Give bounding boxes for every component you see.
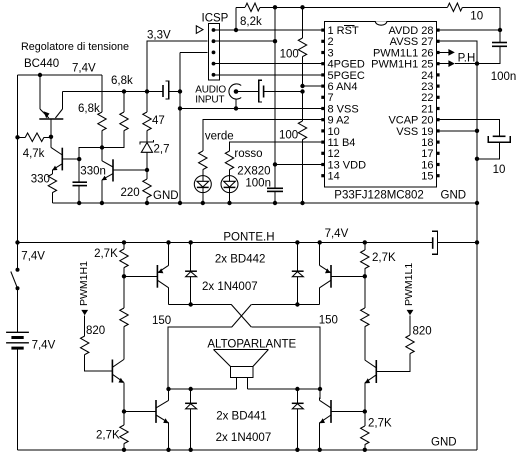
diode D1 1N4007: [185, 242, 197, 304]
label 330n: [80, 166, 106, 178]
label 2x BD441: [216, 411, 267, 423]
svg-text:47: 47: [152, 115, 165, 127]
transistor T1 BD442 left: [157, 242, 168, 304]
svg-text:BC440: BC440: [24, 58, 59, 70]
label 2X820: [237, 166, 270, 178]
svg-text:GND: GND: [431, 437, 457, 449]
label GND bottom: [431, 437, 457, 449]
chip pin pads right: [436, 29, 439, 178]
wire 3.3V horizontal y=91.5: [63, 91, 164, 93]
resistor 2,7K lower left: [120, 412, 128, 450]
node audio junction: [300, 89, 304, 93]
label 100n (VDD): [245, 178, 271, 190]
svg-text:16: 16: [421, 159, 433, 171]
capacitor C 3.3V rail (plate+bracket): [163, 81, 180, 99]
svg-text:2x 1N4007: 2x 1N4007: [216, 432, 272, 444]
node GND rail dots: [77, 201, 305, 205]
wire speaker right y=389: [248, 388, 320, 390]
node 47/zener junction: [145, 168, 149, 172]
node x=180 y=108.4: [178, 106, 182, 110]
label 10 top: [470, 10, 483, 22]
svg-text:6,8k: 6,8k: [78, 103, 100, 115]
svg-text:9 A2: 9 A2: [328, 115, 350, 127]
node D1 rail: [189, 240, 193, 244]
label 2x 1N4007 lower: [216, 432, 272, 444]
svg-text:2,7K: 2,7K: [94, 248, 118, 260]
wire pin11 B4 to rosso: [230, 142, 323, 151]
node Q1 base / 4,7k: [49, 135, 53, 139]
chip pin pads left: [321, 29, 324, 178]
svg-text:PWM1L1: PWM1L1: [403, 263, 415, 306]
ICSP pin dots: [212, 28, 216, 77]
resistor 330: [48, 174, 56, 203]
diode D3 1N4007: [185, 389, 197, 450]
node 7.4V rail left: [15, 240, 19, 244]
wire bottom GND rail: [18, 449, 478, 451]
svg-text:2x BD442: 2x BD442: [215, 254, 266, 266]
diode D4 1N4007: [292, 389, 304, 450]
node AN4 junction: [300, 84, 304, 88]
svg-text:verde: verde: [205, 131, 234, 143]
resistor 47: [143, 92, 151, 142]
label 10 VCAP: [493, 164, 506, 176]
svg-text:VSS 19: VSS 19: [396, 126, 433, 138]
svg-text:24: 24: [421, 70, 433, 82]
resistor verde 820: [199, 151, 207, 176]
label 2,7K upper right: [372, 252, 396, 264]
svg-text:14: 14: [328, 171, 340, 183]
capacitor rail decoupling (plate+bracket): [432, 231, 477, 254]
wire RCA to cap: [236, 91, 259, 93]
svg-text:rosso: rosso: [234, 148, 262, 160]
resistor 820 left: [81, 315, 113, 371]
svg-text:10: 10: [328, 126, 340, 138]
transistor T2 BD442 right: [320, 242, 365, 304]
label verde: [205, 131, 234, 143]
label 47: [152, 115, 165, 127]
transistor T5 driver left: [112, 360, 124, 412]
svg-text:7,4V: 7,4V: [325, 228, 349, 240]
svg-text:4PGED: 4PGED: [328, 59, 365, 71]
label ALTOPARLANTE: [207, 339, 296, 351]
node Q1 collector top: [38, 73, 42, 77]
label 2x 1N4007 upper: [202, 281, 258, 293]
op: chip body: [324, 21, 436, 187]
label 3,3V: [147, 30, 171, 42]
svg-text:330: 330: [31, 174, 50, 186]
label 150 left: [152, 315, 171, 327]
resistor 4,7k: [18, 133, 52, 142]
wire 3.3V up and to ICSP: [147, 41, 208, 91]
wire pin28 AVDD: [438, 29, 500, 31]
wire x=275 vertical VDD: [274, 7, 276, 188]
wire 7.4V top horizontal: [18, 74, 103, 76]
capacitor 10 VCAP (polarized): [477, 136, 510, 159]
wire ICSP5 to chip pin5 PGEC: [214, 74, 323, 76]
svg-text:8 VSS: 8 VSS: [328, 103, 359, 115]
svg-text:2X820: 2X820: [237, 166, 270, 178]
chip pin labels left: [328, 25, 367, 183]
node T3 collector: [166, 387, 170, 391]
svg-text:1 RST: 1 RST: [328, 25, 359, 37]
node out B: [295, 302, 299, 306]
LED rosso: [221, 176, 238, 203]
svg-text:100n: 100n: [245, 178, 271, 190]
svg-text:7,4V: 7,4V: [32, 340, 56, 352]
resistor 8,2k: [236, 3, 260, 30]
svg-text:18: 18: [421, 137, 433, 149]
switch S1: [11, 268, 20, 333]
svg-text:11 B4: 11 B4: [328, 137, 356, 149]
node rail x=124: [122, 240, 126, 244]
svg-text:2x 1N4007: 2x 1N4007: [202, 281, 258, 293]
label 6,8k left: [78, 103, 100, 115]
label 2x BD442: [215, 254, 266, 266]
resistor 2,7K upper right: [361, 242, 369, 276]
svg-text:12: 12: [328, 148, 340, 160]
wire pin13 VDD: [275, 163, 323, 165]
wire VDD top rail: [260, 6, 448, 8]
wire pin6 AN4: [303, 85, 323, 87]
node top rail x=275: [273, 5, 277, 9]
LED verde: [194, 176, 211, 203]
label PONTE.H: [223, 232, 274, 244]
svg-text:820: 820: [413, 326, 432, 338]
node rail x=364.8: [363, 240, 367, 244]
label 7,4V lower left: [21, 251, 45, 263]
wire GND rail y=203: [52, 202, 477, 204]
wire pin19 VSS: [438, 130, 477, 132]
node T2 base: [363, 274, 367, 278]
node T1 base: [122, 274, 126, 278]
resistor 820 right: [376, 315, 414, 371]
node GND rail right: [475, 201, 479, 205]
svg-text:22: 22: [421, 92, 433, 104]
node T4 base / T6 emitter: [363, 409, 367, 413]
wire T3 base: [124, 411, 156, 413]
svg-text:100: 100: [279, 130, 298, 142]
wire ICSP2 to chip pin2: [214, 40, 276, 42]
resistor 6,8k left: [98, 75, 106, 148]
resistor 150 right: [361, 276, 369, 360]
node Q2 base: [77, 157, 81, 161]
node P.H junction: [475, 61, 479, 65]
svg-text:Regolatore di tensione: Regolatore di tensione: [21, 41, 129, 53]
label 2,7: [154, 144, 170, 156]
label rosso: [234, 148, 262, 160]
node 6,8k right top: [122, 89, 126, 93]
svg-text:PWM1H1: PWM1H1: [78, 261, 90, 306]
label PWM1L1 rotated: [403, 263, 415, 306]
ICSP triangle marker: [196, 26, 203, 34]
resistor 6,8k right: [102, 92, 128, 148]
wire 7.4V lower rail: [18, 241, 433, 243]
node x=275 pin13 wire: [273, 162, 277, 166]
transistor T3 BD441 left: [156, 389, 169, 450]
label 7,4V battery: [32, 340, 56, 352]
label 4,7k: [23, 148, 45, 160]
wire out B y=304.5 right: [251, 304, 319, 306]
svg-text:5PGEC: 5PGEC: [328, 70, 365, 82]
label 2,7K lower left: [96, 430, 120, 442]
svg-text:820: 820: [86, 325, 105, 337]
node out A: [189, 302, 193, 306]
node cap10 return: [475, 157, 479, 161]
node D2 rail: [295, 240, 299, 244]
wire out A y=304.5: [169, 304, 232, 306]
resistor 2,7K lower right: [361, 412, 369, 450]
wire X lower-right to speaker node: [251, 327, 320, 389]
chip RST overline: [344, 25, 355, 27]
svg-text:7: 7: [328, 92, 334, 104]
svg-text:23: 23: [421, 81, 433, 93]
svg-text:2,7K: 2,7K: [372, 252, 396, 264]
node RCA gnd: [234, 106, 238, 110]
battery 7,4V: [6, 332, 29, 450]
resistor 2,7K upper left: [120, 242, 128, 276]
label 7,4V right: [325, 228, 349, 240]
arrow PWM1L1 input: [407, 310, 414, 315]
svg-text:150: 150: [152, 315, 171, 327]
label GND regulator: [153, 190, 179, 202]
label 2,7K lower right: [368, 418, 392, 430]
node bottom rail dots: [122, 448, 367, 452]
node x=275 pin2 wire: [273, 39, 277, 43]
svg-text:4,7k: 4,7k: [23, 148, 45, 160]
svg-text:2,7: 2,7: [154, 144, 170, 156]
diode D2 1N4007: [292, 242, 304, 304]
transistor Q3: [102, 148, 147, 204]
label 2,7K upper left: [94, 248, 118, 260]
svg-text:6,8k: 6,8k: [111, 75, 133, 87]
svg-text:GND: GND: [153, 190, 179, 202]
label GND chip: [441, 190, 467, 202]
label BC440: [24, 58, 59, 70]
wire T1 base: [124, 275, 157, 277]
svg-text:13 VDD: 13 VDD: [328, 159, 367, 171]
label ICSP: [202, 13, 229, 25]
label AUDIO: [195, 85, 226, 96]
node 8,2k bottom: [234, 28, 238, 32]
label 330: [31, 174, 50, 186]
label 220: [121, 187, 140, 199]
node T2 emitter rail: [318, 240, 322, 244]
node D4 top: [295, 387, 299, 391]
node T3 base: [122, 409, 126, 413]
wire X lower-left to speaker node: [168, 327, 232, 389]
label INPUT: [195, 95, 224, 106]
connector ICSP box: [208, 24, 219, 80]
node 6,8k bottom junction: [100, 145, 104, 149]
svg-text:15: 15: [421, 171, 433, 183]
wire RCA ground leg: [235, 99, 237, 108]
resistor 100 lower: [298, 92, 306, 204]
wire x=180 vertical: [179, 52, 181, 203]
chip pin labels right: [371, 25, 433, 183]
speaker ALTOPARLANTE: [214, 350, 269, 390]
svg-text:PWM1L1 26: PWM1L1 26: [373, 47, 434, 59]
svg-text:PONTE.H: PONTE.H: [223, 232, 274, 244]
svg-text:VCAP 20: VCAP 20: [388, 115, 433, 127]
node D3 top: [189, 387, 193, 391]
resistor 100 upper: [298, 7, 306, 86]
svg-text:100: 100: [280, 49, 299, 61]
capacitor 100n (VDD decoupling): [267, 188, 283, 203]
svg-text:2: 2: [328, 36, 334, 48]
label 820 left: [86, 325, 105, 337]
transistor T6 driver right: [365, 360, 377, 412]
svg-text:INPUT: INPUT: [195, 95, 224, 106]
svg-text:10: 10: [470, 10, 483, 22]
node rail right end: [475, 240, 479, 244]
svg-text:220: 220: [121, 187, 140, 199]
svg-text:AVDD 28: AVDD 28: [388, 25, 433, 37]
resistor rosso 820: [225, 151, 233, 176]
svg-text:P.H: P.H: [458, 53, 476, 65]
label 7,4V top: [72, 63, 96, 75]
wire speaker left y=389: [169, 388, 237, 390]
arrow pin25 PWM1H1: [438, 60, 477, 67]
svg-text:21: 21: [421, 103, 433, 115]
zener diode 2,7: [140, 140, 154, 170]
wire Q2 base up to 6,8k node: [79, 148, 102, 160]
label 100n AVDD: [491, 71, 517, 83]
transistor Q1 BC440: [39, 75, 63, 137]
label PWM1H1 rotated: [78, 261, 90, 306]
node pin28/10: [498, 28, 502, 32]
svg-text:2,7K: 2,7K: [368, 418, 392, 430]
svg-text:7,4V: 7,4V: [21, 251, 45, 263]
resistor 150 left: [120, 276, 128, 359]
svg-text:3,3V: 3,3V: [147, 30, 171, 42]
svg-text:3: 3: [328, 47, 334, 59]
capacitor 100n AVDD: [477, 43, 507, 64]
node top rail x=302.5: [300, 5, 304, 9]
svg-text:17: 17: [421, 148, 433, 160]
label 8,2k: [240, 16, 262, 28]
transistor Q2: [51, 137, 79, 174]
label Regolatore di tensione: [21, 41, 129, 53]
transistor T4 BD441 right: [320, 389, 365, 450]
wire ICSP4 to chip pin4 PGED: [214, 63, 323, 65]
resistor 10 (top right): [448, 3, 501, 11]
wire pin9 A2 to verde: [203, 120, 323, 151]
node 3.3V right of cap: [178, 89, 182, 93]
svg-text:150: 150: [319, 315, 338, 327]
svg-text:330n: 330n: [80, 166, 106, 178]
node 3.3V cap junction: [145, 89, 149, 93]
svg-text:100n: 100n: [491, 71, 517, 83]
svg-text:6 AN4: 6 AN4: [328, 81, 358, 93]
connector RCA audio jack: [229, 84, 241, 99]
capacitor audio series (bracket+plate): [259, 80, 303, 102]
svg-text:ALTOPARLANTE: ALTOPARLANTE: [207, 339, 296, 351]
arrow PWM1H1 input: [81, 310, 88, 315]
wire left vertical 7.4V: [17, 75, 19, 270]
arrow pin26 PWM1L1: [438, 49, 455, 56]
svg-text:ICSP: ICSP: [202, 13, 229, 25]
label P33FJ128MC802: [334, 190, 424, 202]
wire to ICSP pin3: [180, 51, 208, 53]
svg-text:P33FJ128MC802: P33FJ128MC802: [334, 190, 424, 202]
node pin19: [475, 129, 479, 133]
label 150 right: [319, 315, 338, 327]
svg-text:2x BD441: 2x BD441: [216, 411, 267, 423]
node T1 emitter rail: [166, 240, 170, 244]
svg-text:GND: GND: [441, 190, 467, 202]
svg-text:8,2k: 8,2k: [240, 16, 262, 28]
resistor 220: [143, 170, 151, 203]
wire pin20 VCAP: [438, 120, 500, 137]
label 6,8k right: [111, 75, 133, 87]
capacitor 330n: [73, 159, 88, 203]
label 100 upper: [280, 49, 299, 61]
wire ICSP1 to chip pin1: [214, 29, 323, 31]
label P.H: [458, 53, 476, 65]
svg-text:AVSS 27: AVSS 27: [390, 36, 434, 48]
wire x=500 from top rail: [499, 7, 501, 42]
wire pin27 AVSS: [438, 41, 477, 63]
label 820 right: [413, 326, 432, 338]
node T4 collector: [318, 387, 322, 391]
wire right vertical x=477: [476, 64, 478, 450]
node 4,7k left: [15, 135, 19, 139]
svg-text:7,4V: 7,4V: [72, 63, 96, 75]
label 100 lower: [279, 130, 298, 142]
svg-text:PWM1H1 25: PWM1H1 25: [371, 59, 433, 71]
wire pin8 VSS y=108.4: [180, 107, 323, 109]
wire crossing X: [231, 305, 251, 328]
svg-text:2,7K: 2,7K: [96, 430, 120, 442]
svg-text:10: 10: [493, 164, 506, 176]
